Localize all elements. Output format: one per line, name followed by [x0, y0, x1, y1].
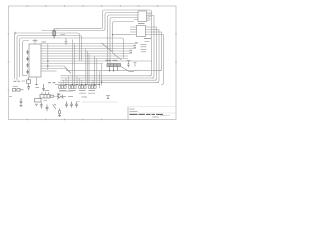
wire stub left bottom bend — [23, 75, 28, 77]
text smudge right of K1 — [59, 90, 73, 92]
capacitor C13 — [75, 102, 78, 108]
decoder U3 body — [137, 26, 146, 37]
data bus wires block y43.5-58.5 — [44, 44, 138, 59]
wire vertical x47.8 — [47, 44, 49, 71]
text smudge near frame left — [9, 96, 12, 98]
bus wire A2 — [44, 65, 64, 67]
title text row 2 — [130, 110, 138, 112]
connector pin riser pair D — [99, 64, 101, 89]
U3 reference label — [144, 38, 151, 40]
U1 right pin stubs upper — [41, 44, 44, 59]
bus wire D6 — [44, 58, 128, 60]
DIP switch cell row — [59, 86, 97, 89]
crystal Y1 label — [56, 28, 59, 30]
bottom nested return wire 4 — [58, 81, 159, 83]
right side vertical wire bus 5 — [159, 32, 162, 71]
wire from K1 to Q1 — [54, 95, 59, 97]
U2 pin name text column — [148, 14, 152, 19]
right side vertical wire bus 4 — [157, 30, 160, 83]
diode D1 on U1 left pin — [26, 50, 29, 55]
resistor R14 vertical — [59, 109, 61, 116]
small component right of X1 — [134, 63, 137, 67]
bus wire D3 — [44, 50, 132, 52]
U2 left pin stubs — [134, 13, 138, 20]
bus wire D0 — [44, 43, 138, 45]
text smudge below U3 — [145, 41, 150, 43]
bus wire A0 — [44, 60, 152, 62]
bus wire D5 — [44, 55, 128, 57]
capacitor C12 — [70, 102, 73, 108]
upper wire group with left bends — [15, 13, 135, 81]
transistor Q1 — [58, 93, 60, 100]
bus entry diagonal 2 — [113, 53, 122, 60]
U1 VCC top pin wire — [34, 41, 36, 44]
small symbol S1 — [106, 96, 110, 99]
K1 label — [45, 90, 50, 92]
text smudge left of small box — [22, 80, 26, 82]
title block small line — [160, 115, 170, 117]
bus wire D4 — [44, 53, 132, 55]
JP labels below connectors — [59, 90, 95, 92]
crystal Y1 — [53, 29, 55, 39]
filename text row dark — [130, 113, 164, 115]
loop wire 2 — [110, 18, 134, 64]
loop wire 3 — [113, 22, 135, 54]
45-degree bend wire A2 — [64, 66, 71, 73]
wire P1.2 left bend — [20, 38, 124, 77]
latch U2 body — [138, 11, 147, 22]
C1 value text — [61, 34, 66, 36]
connector pin riser pair A — [72, 40, 74, 86]
net flag right of Q1 — [60, 95, 63, 98]
S2 label text — [44, 99, 48, 101]
wire from vertical to U3 pin — [113, 34, 131, 36]
short connector pins — [61, 76, 93, 86]
right side vertical wire bus 2 — [152, 16, 155, 79]
sheet border frame — [9, 6, 177, 120]
U2 right pin stubs — [147, 13, 155, 21]
long thin wire y102 — [82, 101, 118, 103]
capacitor C5 column x43.5 — [42, 84, 45, 91]
right side vertical wire bus 1 — [149, 14, 152, 76]
X1 output diagonal wire — [121, 67, 137, 72]
tiny mark x78 y102 — [78, 101, 80, 103]
bus wire A1 — [44, 63, 103, 65]
net label arrow marks at bus wire ends — [130, 43, 138, 53]
junction dot x47.8 y61 — [47, 60, 49, 62]
wire XTAL top — [42, 13, 135, 31]
U1 pin-name text smudge top right — [42, 41, 47, 43]
pull-up R9 near X1 — [127, 61, 131, 68]
loop wire over-the-top — [54, 10, 151, 29]
capacitor C7 — [20, 98, 23, 105]
U3 left pin stubs — [130, 27, 137, 35]
diode D3 on U1 left pin — [26, 63, 29, 68]
mid horizontal wire y70.8 — [66, 70, 162, 72]
right side vertical wire bus 3 — [154, 27, 157, 80]
capacitor C11 — [65, 102, 68, 108]
U3 right pin stubs — [146, 27, 164, 35]
battery BT1 — [13, 89, 24, 92]
junction dots on y70.7 line — [109, 70, 110, 71]
oscillator X1 body — [107, 64, 121, 71]
net name text column right of bus — [141, 44, 147, 52]
wire P1.0 left bend — [15, 33, 80, 79]
bus wire A3 — [44, 68, 66, 70]
45-degree bend wire A3 — [66, 69, 71, 74]
frame zone tick marks top — [27, 5, 157, 7]
address wire group y61-68.5 — [44, 61, 152, 69]
connector pin riser triple B — [86, 49, 89, 86]
frame zone tick marks right — [175, 34, 177, 62]
text smudge top-left small — [14, 80, 21, 82]
junction dot x47.8 y66 — [47, 65, 49, 67]
capacitor C4 on U1 left pin — [26, 70, 29, 75]
VCC power bracket above U1 — [33, 39, 38, 41]
junction dots above connector — [65, 82, 102, 84]
title block divider line — [128, 112, 176, 114]
diode D5 diagonal — [53, 104, 57, 109]
capacitor C6 — [27, 85, 30, 90]
connector pin riser pair C — [95, 56, 97, 86]
ground below C7 — [20, 106, 23, 107]
loop wire 1 — [108, 15, 135, 63]
frame zone tick marks left — [8, 34, 10, 90]
pin number text below U1 pin — [36, 87, 40, 89]
bottom nested return wire 2 — [61, 77, 155, 79]
switch S2 small box — [35, 99, 42, 103]
bus wire D1 — [44, 45, 136, 47]
microcontroller U1 body — [29, 44, 41, 77]
wire ALE — [44, 70, 57, 72]
second label text row under cells — [79, 92, 95, 94]
junction dot x112.5 y34.7 — [112, 34, 113, 35]
X1 label text — [106, 59, 118, 61]
frame zone tick marks bottom — [27, 119, 101, 121]
ground below R14 — [58, 116, 61, 117]
capacitor C10 — [46, 105, 49, 112]
bottom outer return wire 5 — [55, 84, 99, 86]
right side vertical wire bus 6 — [161, 35, 164, 85]
component small box left — [27, 77, 31, 85]
wire P1.1 left bend — [17, 36, 82, 81]
capacitor C9 — [40, 103, 43, 109]
top-right nested loop wires — [54, 10, 151, 63]
capacitor C1 stub at x66 — [65, 38, 68, 45]
bottom nested return wire 1 — [61, 75, 152, 77]
title block top line — [128, 106, 176, 108]
junction dot U1 bottom — [36, 84, 38, 86]
junction tick on left bends — [14, 32, 17, 35]
bus entry diagonal 1 — [102, 43, 113, 52]
text smudge row mid-bottom — [60, 96, 87, 99]
ground below S2 — [35, 104, 38, 105]
title text row 1 — [130, 108, 135, 110]
sheet text — [153, 116, 159, 118]
BT1 label — [13, 85, 19, 87]
relay K1 body — [40, 92, 54, 98]
wire P1.3 left vertical — [23, 41, 30, 76]
bus wire D2 — [44, 48, 136, 50]
bottom nested return wire 3 — [61, 79, 157, 81]
U2 reference label — [138, 23, 145, 25]
diode D2 on U1 left pin — [26, 57, 29, 62]
U1 right pin stubs lower — [41, 61, 44, 71]
net text smudge right of x47.8 — [48, 82, 56, 84]
title block left edge — [127, 107, 129, 120]
U1 bottom pin wire — [36, 77, 38, 85]
